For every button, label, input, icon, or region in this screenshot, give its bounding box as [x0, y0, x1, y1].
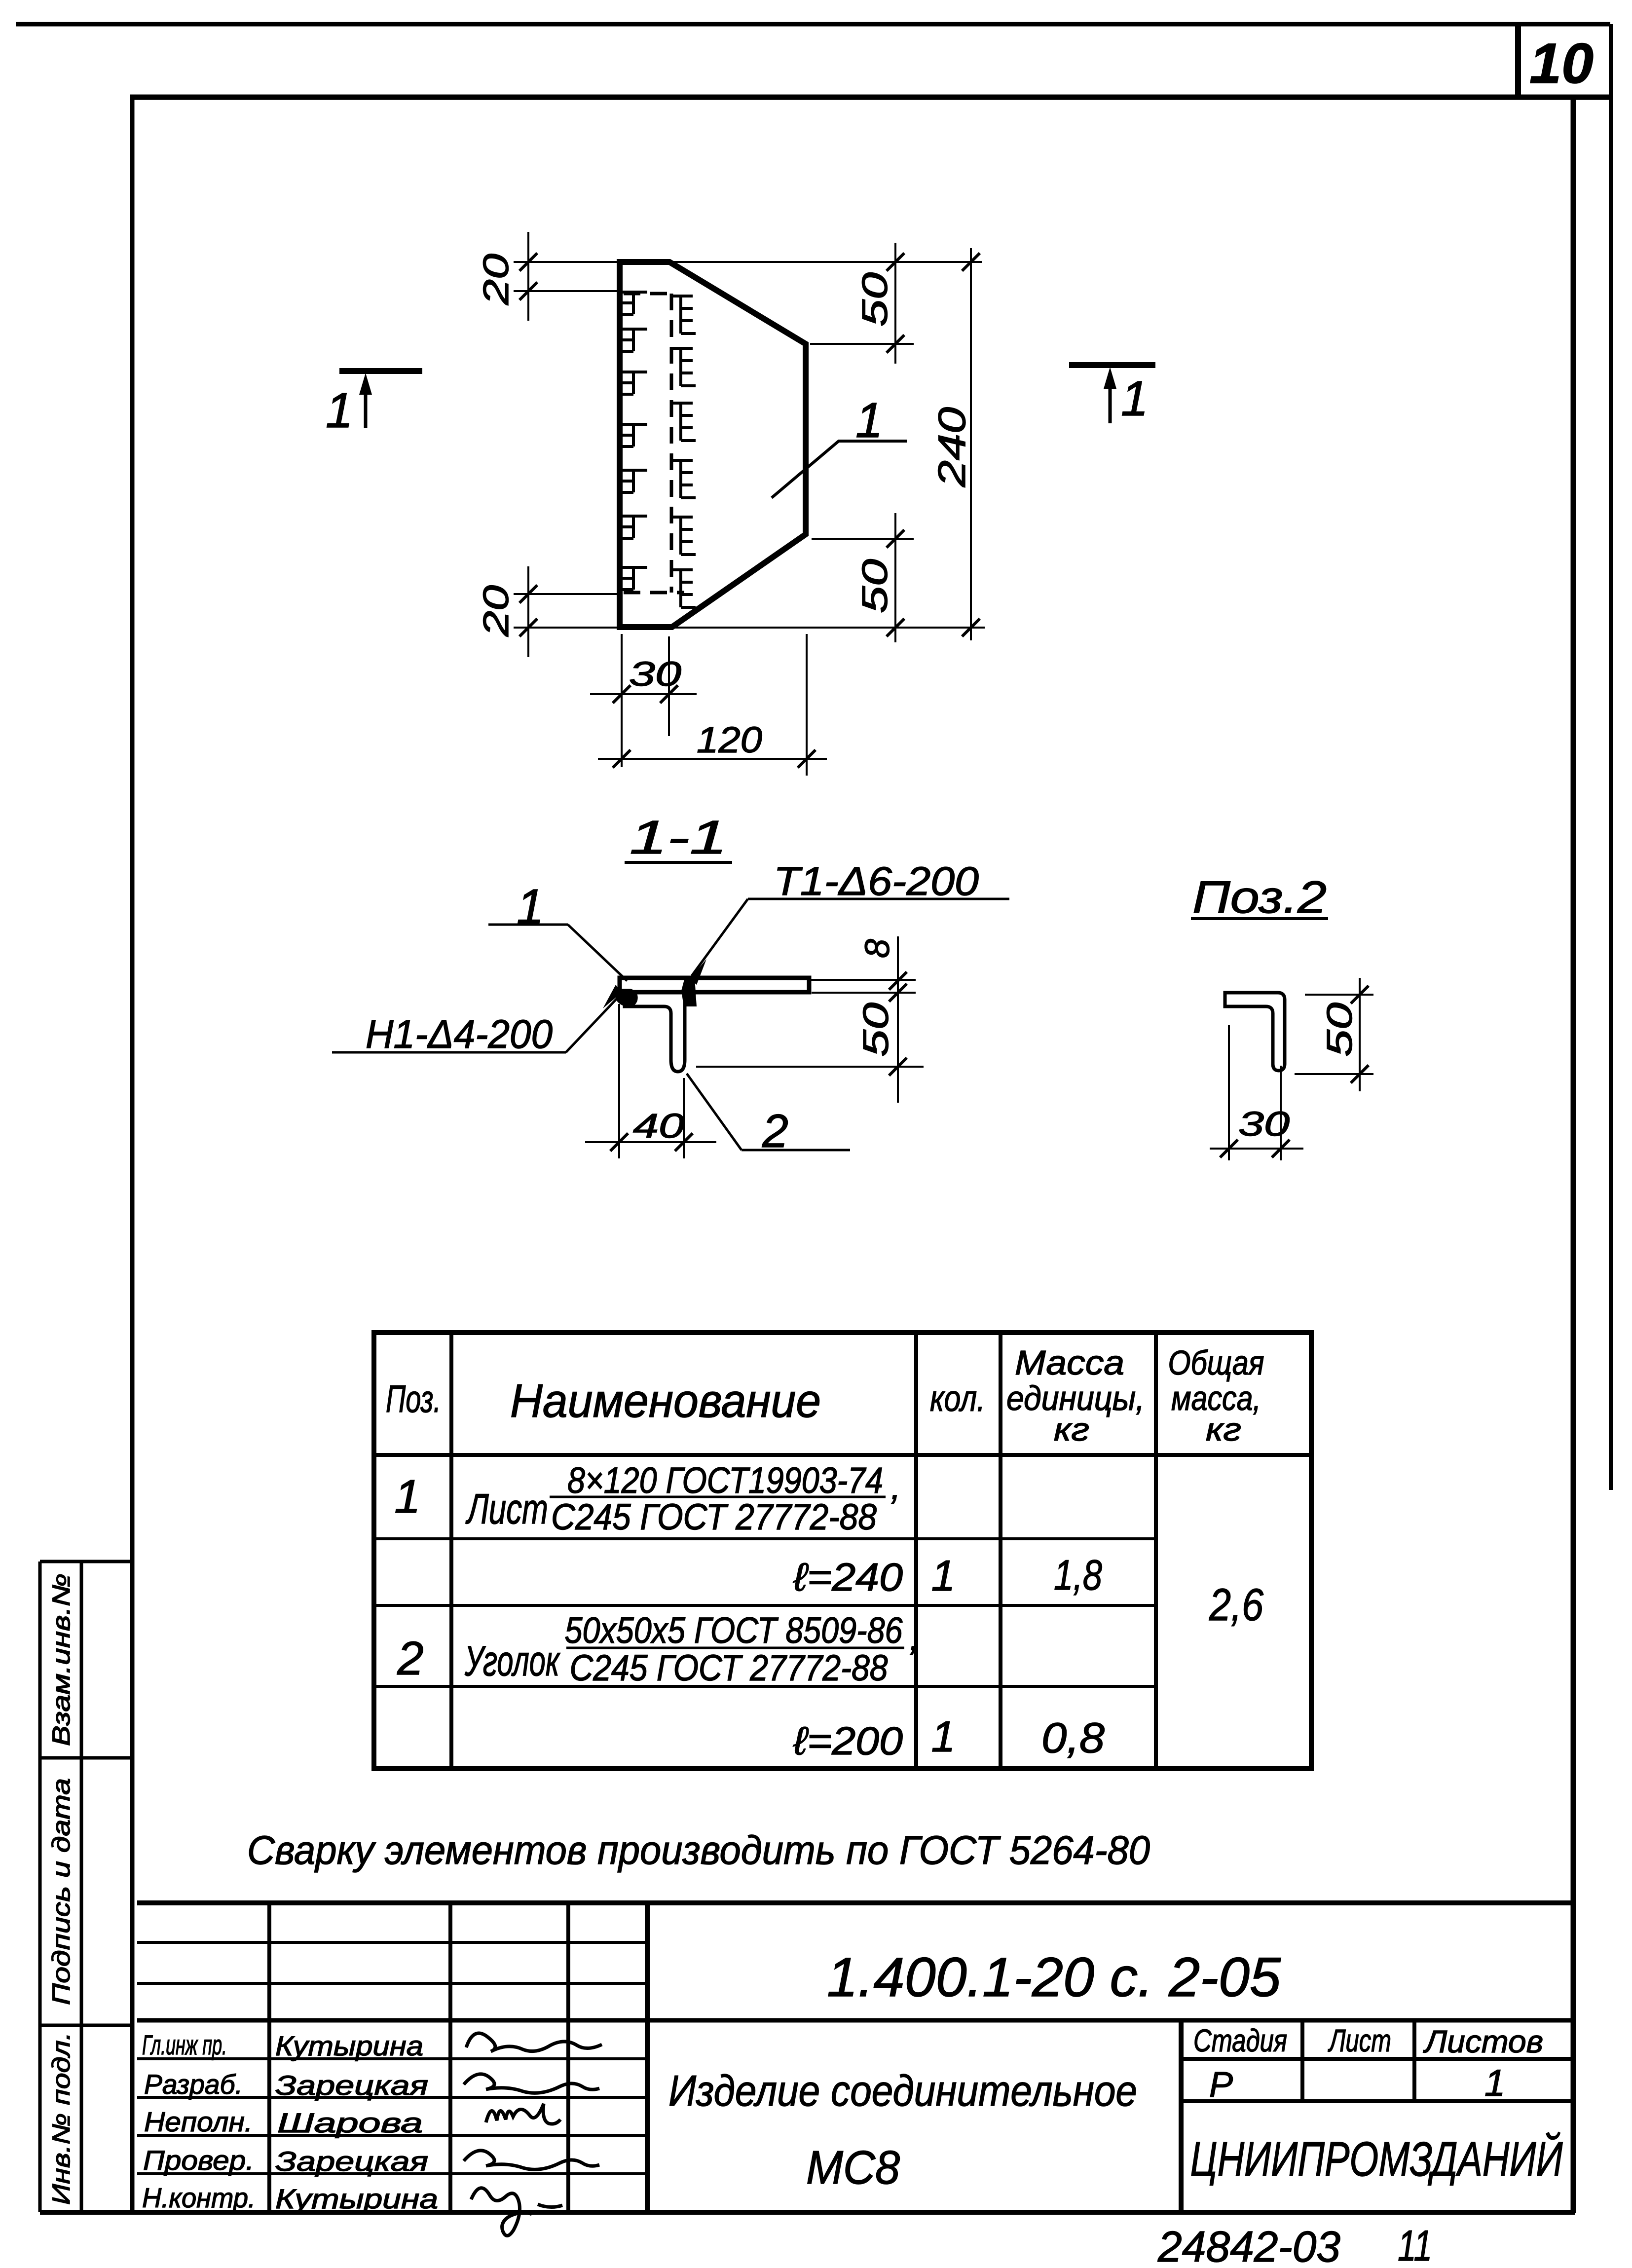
section mark 1 left: [326, 371, 422, 438]
svg-text:2,6: 2,6: [1209, 1580, 1264, 1630]
svg-text:кг: кг: [1054, 1411, 1089, 1448]
dim 20 bottom: [514, 566, 618, 657]
svg-text:кг: кг: [1206, 1411, 1241, 1448]
leader 2: [687, 1074, 850, 1157]
drawing frame bottom edge: [40, 2210, 1575, 2215]
dim 20 top: [514, 232, 618, 321]
svg-text:С245 ГОСТ 27772-88: С245 ГОСТ 27772-88: [551, 1496, 877, 1537]
dim 120 bottom: [598, 634, 827, 776]
svg-text:50: 50: [856, 1003, 896, 1057]
strip label Inv.No podl.: [47, 2032, 75, 2205]
svg-text:50: 50: [1320, 1003, 1360, 1057]
dim 240 right: [962, 248, 980, 640]
svg-text:40: 40: [633, 1107, 684, 1145]
leader T1-D6-200: [690, 859, 1009, 985]
svg-text:1.400.1-20 с. 2-05: 1.400.1-20 с. 2-05: [827, 1946, 1281, 2008]
title block role and name texts: [142, 2029, 438, 2214]
svg-text:10: 10: [1529, 32, 1594, 95]
plate extension thin lines: [810, 979, 916, 981]
POZ-2: [1191, 872, 1373, 1160]
svg-text:Р: Р: [1209, 2065, 1233, 2105]
dim 8: [889, 936, 907, 1103]
weld marks on dashed line: [672, 296, 696, 607]
extension line plate top: [514, 261, 982, 263]
svg-text:Зарецкая: Зарецкая: [275, 2146, 428, 2177]
stage sheet sheets header: [1193, 2023, 1543, 2059]
svg-text:1: 1: [931, 1551, 956, 1600]
svg-text:1: 1: [855, 393, 883, 448]
svg-text:Н1-Δ4-200: Н1-Δ4-200: [366, 1012, 553, 1057]
dim 50 section: [696, 1058, 924, 1076]
svg-text:Гл.инж пр.: Гл.инж пр.: [142, 2029, 227, 2060]
svg-text:0,8: 0,8: [1041, 1714, 1105, 1762]
plate outline item 1: [620, 262, 806, 627]
svg-text:1: 1: [1484, 2062, 1505, 2104]
sheet number box divider: [1515, 24, 1521, 98]
svg-text:Взам.инв.№: Взам.инв.№: [47, 1573, 75, 1746]
leader H1-D4-200: [332, 985, 622, 1057]
svg-text:Т1-Δ6-200: Т1-Δ6-200: [774, 859, 979, 904]
svg-text:1-1: 1-1: [630, 811, 727, 864]
svg-text:1,8: 1,8: [1054, 1552, 1102, 1599]
svg-text:Инв.№ подл.: Инв.№ подл.: [47, 2032, 75, 2205]
strip label Podpis i data: [47, 1778, 75, 2005]
svg-text:Зарецкая: Зарецкая: [275, 2070, 428, 2101]
svg-text:Стадия: Стадия: [1193, 2023, 1287, 2058]
svg-text:Шарова: Шарова: [277, 2107, 423, 2138]
svg-text:Поз.: Поз.: [386, 1377, 441, 1420]
dim 50 top right: [810, 243, 914, 364]
title block grid: [137, 1903, 1573, 2212]
svg-text:Уголок: Уголок: [464, 1637, 560, 1685]
svg-text:11: 11: [1398, 2221, 1432, 2266]
drawing frame left edge: [130, 97, 135, 2212]
svg-text:Н.контр.: Н.контр.: [142, 2182, 256, 2213]
dim 30 bottom: [590, 634, 697, 767]
row 1 item 1 list: [394, 1460, 897, 1537]
svg-text:Сварку элементов производить п: Сварку элементов производить по ГОСТ 526…: [247, 1828, 1150, 1873]
extension line plate bottom: [514, 627, 985, 629]
svg-text:Поз.2: Поз.2: [1192, 872, 1327, 923]
svg-text:20: 20: [477, 585, 516, 637]
SECTION-1-1: [332, 811, 1009, 1158]
svg-text:2: 2: [397, 1632, 423, 1685]
svg-text:МС8: МС8: [806, 2141, 900, 2194]
row 3 item 2 ugolok: [397, 1610, 916, 1688]
TABLE: [374, 1333, 1311, 1769]
svg-text:Разраб.: Разраб.: [144, 2069, 243, 2100]
svg-text:50: 50: [855, 272, 895, 327]
svg-text:20: 20: [477, 254, 516, 305]
svg-text:Лист: Лист: [1328, 2023, 1391, 2058]
svg-text:’: ’: [907, 1638, 916, 1679]
drawing frame right edge: [1571, 97, 1576, 2213]
svg-text:Кутырина: Кутырина: [275, 2183, 438, 2214]
svg-text:240: 240: [930, 407, 973, 487]
title 1-1: [625, 811, 732, 864]
angle item2 profile: [1225, 993, 1285, 1071]
svg-text:50x50x5 ГОСТ 8509-86: 50x50x5 ГОСТ 8509-86: [565, 1610, 903, 1651]
svg-text:1: 1: [517, 879, 544, 934]
row 2 l=240: [793, 1551, 1102, 1600]
plate bar item1 in section: [620, 978, 809, 992]
svg-text:Масса: Масса: [1015, 1343, 1124, 1382]
svg-text:1: 1: [394, 1470, 420, 1523]
svg-text:ℓ=200: ℓ=200: [793, 1719, 903, 1763]
svg-text:24842-03: 24842-03: [1157, 2222, 1340, 2266]
leader 1: [488, 879, 627, 981]
svg-text:1: 1: [931, 1712, 956, 1761]
left filing strip grid: [40, 1562, 132, 2212]
svg-text:Кутырина: Кутырина: [275, 2030, 423, 2061]
TITLE-BLOCK: [137, 1903, 1573, 2268]
leader 1 to plate: [772, 393, 907, 498]
weld blob top T1: [681, 976, 697, 1006]
table header row texts: [386, 1343, 1264, 1448]
svg-text:Лист: Лист: [465, 1486, 548, 1533]
weld blob left H1: [616, 989, 638, 1006]
svg-text:8×120 ГОСТ19903-74: 8×120 ГОСТ19903-74: [567, 1460, 883, 1501]
svg-text:120: 120: [697, 719, 762, 760]
svg-text:’: ’: [888, 1487, 897, 1528]
row 4 l=200: [793, 1712, 1105, 1763]
weld marks on left edge: [617, 292, 647, 590]
svg-text:Изделие соединительное: Изделие соединительное: [668, 2066, 1137, 2115]
drawing frame top edge: [130, 95, 1611, 100]
svg-text:Общая: Общая: [1168, 1343, 1264, 1382]
svg-text:1: 1: [326, 383, 353, 438]
svg-text:С245 ГОСТ 27772-88: С245 ГОСТ 27772-88: [570, 1647, 888, 1688]
svg-text:Подпись и дата: Подпись и дата: [47, 1778, 75, 2005]
dim 30 poz2: [1210, 1025, 1303, 1160]
strip label Vzam.inv.No: [47, 1573, 75, 1746]
svg-text:Провер.: Провер.: [143, 2145, 254, 2176]
svg-text:30: 30: [629, 655, 681, 693]
title Poz.2: [1191, 872, 1328, 923]
table grid: [374, 1333, 1311, 1769]
svg-text:1: 1: [1121, 371, 1149, 426]
svg-text:Наименование: Наименование: [510, 1375, 821, 1427]
svg-text:ℓ=240: ℓ=240: [793, 1555, 903, 1599]
section mark 1 right: [1069, 365, 1155, 426]
svg-text:Листов: Листов: [1423, 2024, 1543, 2059]
angle item2 in section: [625, 993, 685, 1072]
sheet top border line: [16, 22, 1610, 27]
dim 40: [585, 1004, 716, 1158]
svg-text:8: 8: [858, 939, 896, 958]
svg-text:50: 50: [855, 559, 895, 613]
dim 50 bottom right: [812, 513, 914, 642]
svg-text:кол.: кол.: [930, 1378, 985, 1419]
hidden angle leg dashed: [624, 294, 684, 593]
svg-text:ЦНИИПРОМЗДАНИЙ: ЦНИИПРОМЗДАНИЙ: [1190, 2131, 1563, 2186]
svg-text:Неполн.: Неполн.: [144, 2106, 253, 2137]
signatures: [464, 2033, 602, 2235]
dim 50 poz2: [1295, 978, 1373, 1091]
PLAN-VIEW: [326, 232, 1155, 776]
svg-text:30: 30: [1238, 1105, 1290, 1143]
sheet outer right border: [1609, 24, 1613, 1490]
